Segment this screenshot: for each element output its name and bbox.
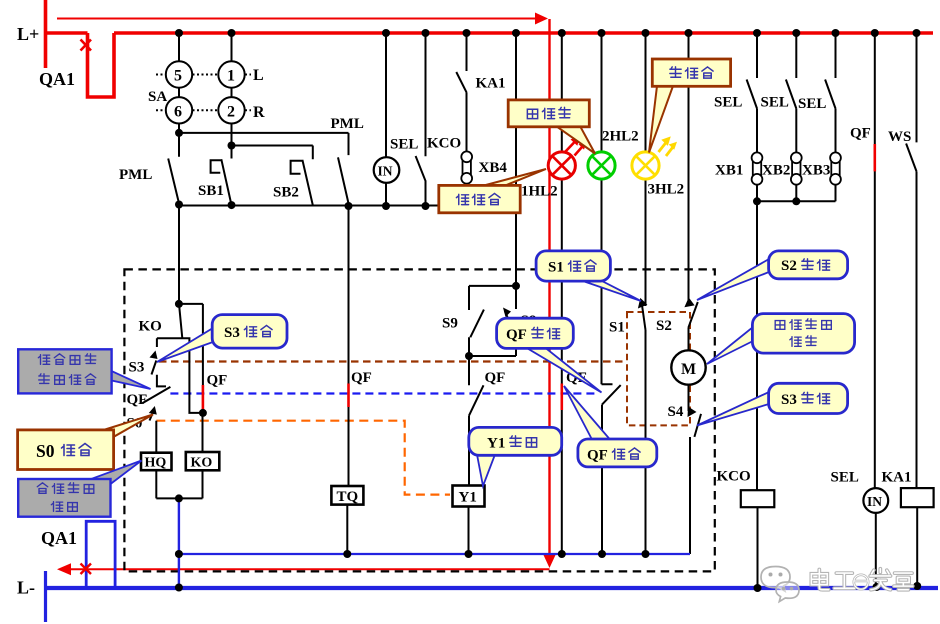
- coil KO: [186, 413, 220, 499]
- breaker QA1 top red dip: [81, 33, 115, 97]
- svg-text:XB3: XB3: [802, 163, 830, 179]
- node L+ label: [17, 24, 39, 44]
- dashed blue QF line: [170, 392, 599, 394]
- svg-text:S1: S1: [548, 260, 564, 276]
- contact QF red closed segment under 1HL2: [562, 370, 587, 410]
- svg-text:L+: L+: [17, 24, 39, 44]
- watermark text dian gong e xue tang: [811, 569, 912, 590]
- coil Y1: [453, 486, 485, 555]
- svg-text:KA1: KA1: [882, 470, 912, 486]
- svg-text:QF: QF: [127, 392, 148, 408]
- svg-text:6: 6: [174, 104, 182, 121]
- svg-text:PML: PML: [331, 116, 364, 132]
- svg-text:PML: PML: [119, 167, 152, 183]
- svg-text:S3: S3: [224, 325, 240, 341]
- junction dots rails: [175, 129, 921, 592]
- svg-text:QF: QF: [506, 327, 527, 343]
- contact QF above Y1: [469, 356, 505, 486]
- wire blue rail y554: [179, 553, 690, 555]
- svg-text:S4: S4: [668, 404, 684, 420]
- svg-text:SEL: SEL: [761, 95, 789, 111]
- svg-text:SA: SA: [148, 89, 167, 105]
- contact S0: [127, 406, 157, 453]
- callout S3 closed: [157, 315, 287, 362]
- dashed brown S3 line: [159, 360, 627, 362]
- bus L- blue: [45, 586, 938, 590]
- lamp 1HL2 red: [521, 33, 575, 554]
- svg-text:1: 1: [227, 68, 235, 85]
- switch SEL column 2 with connector XB2: [761, 33, 802, 201]
- coil KA1 bottom: [882, 470, 934, 587]
- contact QF aux right closed red: [179, 304, 227, 413]
- callout yellow lamp on: [649, 59, 731, 153]
- svg-text:KO: KO: [139, 319, 162, 335]
- breaker QA1 label top: [39, 69, 75, 89]
- wire SA column left: [178, 33, 180, 133]
- contact KO with bracket: [139, 205, 205, 413]
- wire red thin top arrow line: [57, 13, 548, 25]
- wire XB join rail: [757, 200, 836, 202]
- callout S0 closed: [18, 415, 153, 470]
- callout S3 open: [697, 383, 848, 425]
- wire red L+ stub vertical: [44, 0, 48, 68]
- svg-text:S9: S9: [442, 316, 458, 332]
- switch SEL column 3 with connector XB3: [798, 33, 841, 201]
- contact S3: [129, 338, 167, 386]
- svg-text:TQ: TQ: [337, 489, 359, 505]
- lamp 2HL2 green: [588, 33, 639, 384]
- lamp rays yellow: [659, 136, 678, 156]
- svg-text:L-: L-: [17, 578, 35, 598]
- contact QF right red closed: [850, 33, 875, 488]
- svg-text:Y1: Y1: [487, 436, 505, 452]
- svg-text:SEL: SEL: [798, 96, 826, 112]
- svg-text:M: M: [681, 361, 696, 378]
- svg-text:IN: IN: [867, 494, 882, 509]
- svg-text:QF: QF: [850, 126, 871, 142]
- wire red bottom arrow line to L-: [57, 563, 550, 575]
- breaker QA1 bottom blue: [41, 521, 115, 588]
- svg-text:2: 2: [227, 104, 235, 121]
- coil TQ column: [331, 206, 371, 554]
- svg-text:1HL2: 1HL2: [521, 184, 558, 200]
- callout S2 open: [697, 251, 848, 300]
- svg-text:S3: S3: [781, 392, 797, 408]
- svg-text:XB2: XB2: [762, 163, 790, 179]
- dashed orange S0 line to Y1: [156, 421, 450, 495]
- callout QF closed: [564, 386, 657, 467]
- callout S1 closed: [536, 251, 641, 301]
- switch PML right: [331, 116, 364, 203]
- motor M energy storage: [671, 350, 705, 384]
- svg-text:2HL2: 2HL2: [602, 129, 639, 145]
- node L- label: [17, 571, 46, 622]
- wire SA column right: [231, 33, 233, 146]
- svg-text:WS: WS: [888, 129, 911, 145]
- svg-text:QA1: QA1: [41, 528, 77, 548]
- svg-text:XB4: XB4: [479, 160, 508, 176]
- pushbutton SB1: [198, 146, 232, 206]
- svg-text:5: 5: [174, 68, 182, 85]
- wire feeder y133: [179, 132, 349, 134]
- switch PML left: [119, 133, 179, 204]
- meter SEL IN bottom: [831, 470, 889, 589]
- svg-text:S1: S1: [609, 320, 625, 336]
- svg-text:S2: S2: [781, 258, 797, 274]
- coil HQ: [141, 453, 172, 499]
- meter SEL IN top: [374, 33, 419, 206]
- contact S9 branch: [442, 286, 516, 356]
- watermark wechat icon: [761, 567, 799, 602]
- wire red vertical trip line: [544, 19, 556, 568]
- contact S4 below motor: [668, 385, 702, 554]
- svg-text:QF: QF: [351, 370, 372, 386]
- wire feeder y145: [232, 145, 313, 147]
- switch WS column: [888, 33, 917, 488]
- svg-text:L: L: [253, 67, 264, 84]
- svg-text:KO: KO: [191, 456, 213, 471]
- contact S8 on column: [469, 33, 536, 356]
- switch SEL column 1 with connector XB1: [714, 33, 762, 201]
- wire join HQ KO: [156, 497, 202, 499]
- svg-text:KA1: KA1: [476, 76, 506, 92]
- wire black rail y205 top section: [179, 205, 466, 207]
- svg-text:QF: QF: [587, 448, 608, 464]
- contact QF closing blade under 2HL2: [602, 384, 621, 554]
- contact S1 on 3HL2 column: [609, 298, 647, 336]
- switch KCO top: [416, 33, 462, 206]
- contact QF aux left open: [127, 387, 171, 408]
- callout Y1 energized: [469, 427, 562, 486]
- lamp rays red: [566, 136, 587, 156]
- svg-text:S3: S3: [129, 360, 145, 376]
- dashed brown box S1 S2 M S4: [627, 312, 690, 425]
- svg-text:S0: S0: [36, 441, 55, 461]
- junction dots top bus: [175, 29, 921, 37]
- svg-text:KCO: KCO: [717, 469, 751, 485]
- svg-text:KCO: KCO: [427, 136, 461, 152]
- svg-text:QF: QF: [485, 370, 506, 386]
- svg-text:XB1: XB1: [715, 163, 743, 179]
- svg-text:QA1: QA1: [39, 69, 75, 89]
- callout green lamp off: [508, 100, 595, 154]
- svg-text:IN: IN: [378, 164, 393, 179]
- svg-text:HQ: HQ: [145, 456, 167, 471]
- callout motor stop: [707, 314, 855, 364]
- dashed control box: [124, 269, 714, 571]
- svg-text:S2: S2: [656, 318, 672, 334]
- svg-text:SEL: SEL: [831, 470, 859, 486]
- svg-text:SB1: SB1: [198, 183, 224, 199]
- pushbutton SB2: [273, 146, 313, 206]
- svg-text:SB2: SB2: [273, 185, 299, 201]
- svg-text:SEL: SEL: [390, 137, 418, 153]
- svg-text:R: R: [253, 104, 265, 121]
- svg-text:Y1: Y1: [459, 490, 477, 506]
- contact S2 column with blade: [656, 33, 698, 350]
- wire red L+ bus stub: [44, 31, 88, 35]
- switch KA1 with connector XB4: [456, 33, 507, 206]
- callout aux contact change gray: [18, 349, 150, 393]
- callout closing coil deenergized gray: [18, 461, 141, 517]
- wire red main bus L+: [114, 31, 933, 35]
- selector switch SA circles: [148, 61, 265, 123]
- coil KCO bottom: [717, 201, 775, 588]
- svg-text:3HL2: 3HL2: [648, 182, 685, 198]
- callout red lamp on: [439, 169, 546, 213]
- lamp 3HL2 yellow: [632, 33, 684, 554]
- wire blue drop to L-: [178, 498, 180, 589]
- svg-text:SEL: SEL: [714, 95, 742, 111]
- callout QF open: [497, 318, 602, 392]
- svg-text:QF: QF: [207, 373, 228, 389]
